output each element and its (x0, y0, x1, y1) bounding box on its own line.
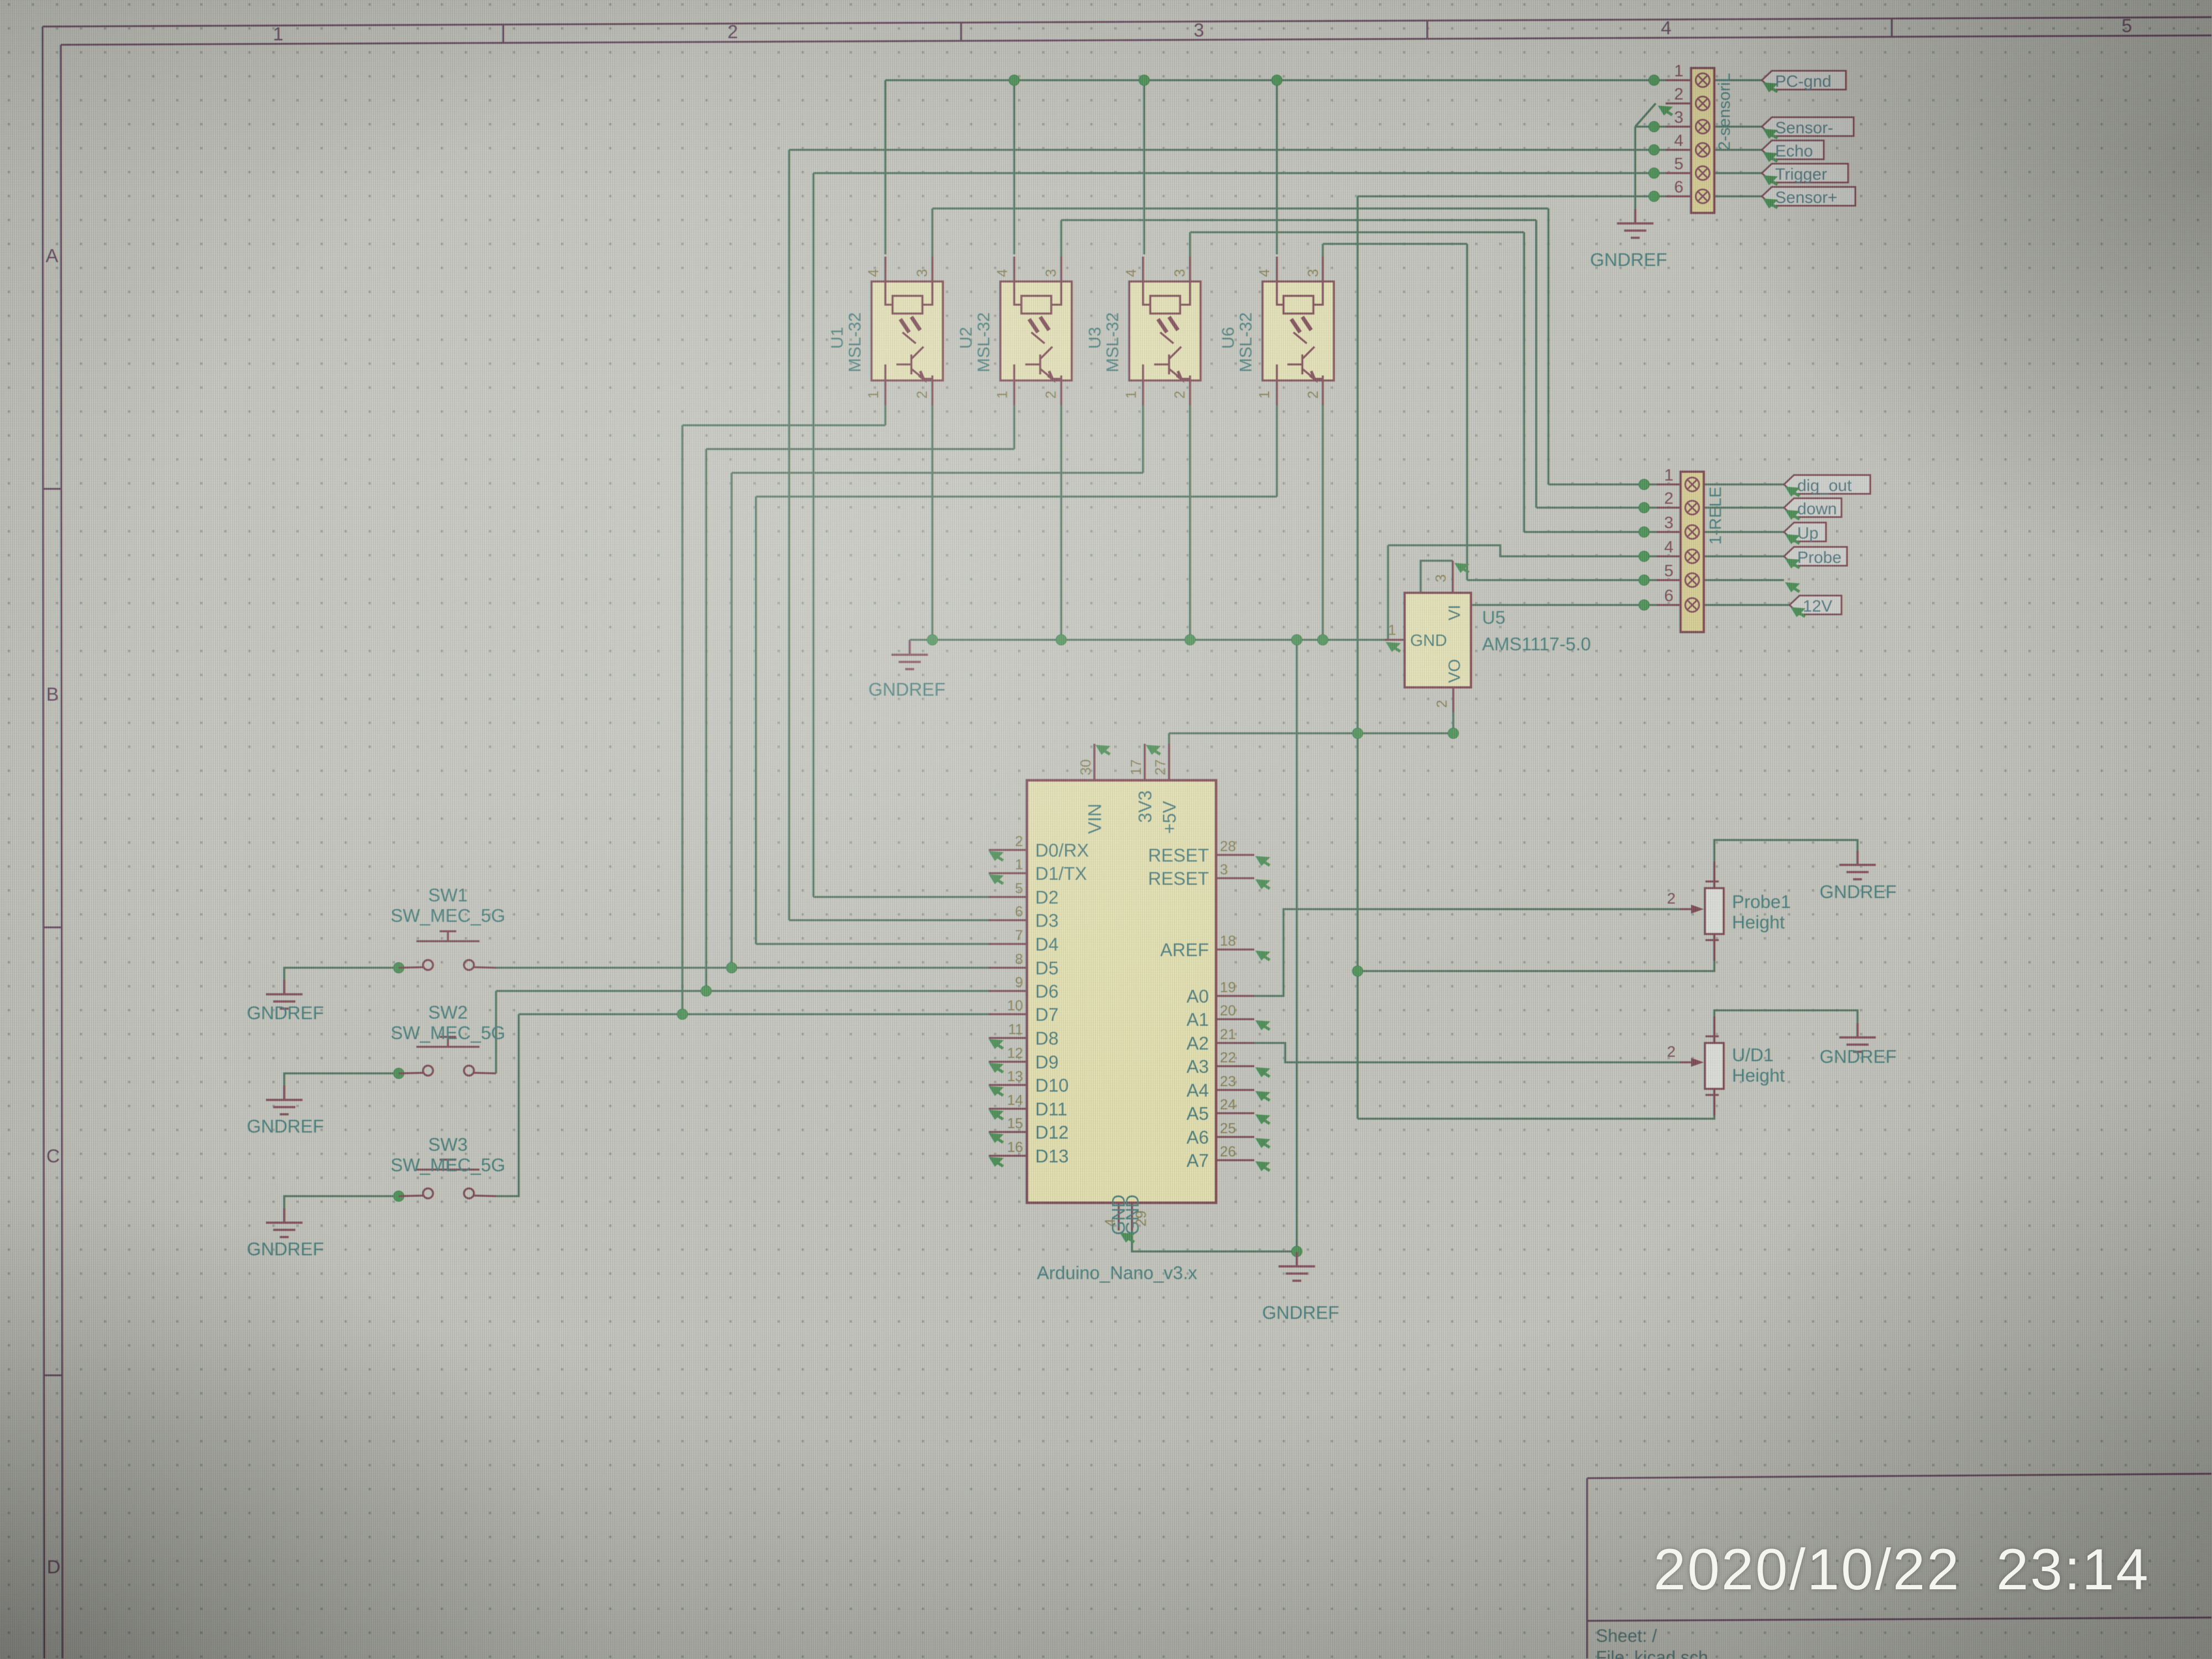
svg-text:GNDREF: GNDREF (868, 679, 945, 700)
svg-text:AREF: AREF (1160, 940, 1209, 960)
svg-text:D9: D9 (1035, 1052, 1058, 1072)
wire GND bus horizontal (910, 639, 1388, 641)
svg-text:13: 13 (1007, 1068, 1023, 1084)
ERC marker A1 (1255, 1020, 1270, 1030)
svg-text:2: 2 (1664, 489, 1673, 508)
svg-text:2: 2 (1667, 1043, 1676, 1060)
wire SW2 left to ground (284, 1073, 399, 1087)
wire U2 input horizontal (706, 448, 1014, 450)
svg-text:5: 5 (2122, 15, 2132, 36)
svg-text:Height: Height (1732, 1065, 1785, 1086)
column tick 4/5 (1891, 18, 1892, 36)
junction J2 pin1 (1649, 75, 1660, 86)
junction J2 pin3 diagonal (1649, 122, 1660, 132)
junction V2 on D6 (701, 986, 712, 997)
wire A2 to pot2 wiper (1254, 1043, 1680, 1062)
svg-text:Height: Height (1732, 912, 1785, 932)
wire U3 pin1 drop (1142, 405, 1144, 473)
wire D3 horizontal (789, 919, 990, 921)
global label Trigger (1762, 164, 1848, 184)
svg-text:6: 6 (1674, 178, 1683, 196)
svg-text:Probe: Probe (1797, 549, 1841, 567)
wire U4 pin2 vertical (1322, 405, 1324, 640)
wire GND to REL row4 horizontal (1388, 545, 1657, 556)
wire pot1 bottom to 5V (1358, 934, 1714, 971)
svg-text:D: D (47, 1557, 61, 1578)
wire SW2 output riser (495, 991, 497, 1073)
junction J2 pin4 (1649, 145, 1660, 155)
wire J2 label stub row1 (1714, 79, 1762, 81)
wire D5 horizontal from SW1 (496, 967, 990, 969)
svg-text:A: A (46, 246, 59, 267)
wire J1 label stub row3 (1704, 531, 1784, 533)
svg-text:C: C (46, 1146, 60, 1167)
column tick 1/2 (502, 24, 504, 43)
svg-text:D7: D7 (1035, 1004, 1058, 1025)
svg-text:U6: U6 (1218, 327, 1238, 349)
switch SW1 (390, 885, 505, 970)
svg-text:4: 4 (1256, 269, 1272, 277)
svg-text:3: 3 (1305, 269, 1321, 277)
junction J2 pin6 (1649, 191, 1660, 202)
junction J1 pin6 (1639, 600, 1650, 611)
ground symbol pot2 (1839, 1023, 1876, 1052)
junction U4 pin2 on GND bus (1318, 635, 1328, 645)
svg-text:18: 18 (1220, 932, 1236, 949)
title block border (1587, 1474, 2211, 1658)
ERC marker A3 (1255, 1067, 1270, 1077)
ERC marker label Sensor- (1763, 129, 1778, 139)
wire net PC-gnd row1 horizontal (885, 79, 1666, 81)
ERC marker label Probe (1785, 559, 1800, 568)
wire GND drop to bottom (1296, 640, 1298, 1251)
global label PC-gnd (1762, 71, 1846, 91)
svg-text:D1/TX: D1/TX (1035, 863, 1087, 884)
potentiometer RV2 U/D1 Height (1667, 1016, 1785, 1115)
svg-text:GNDREF: GNDREF (1590, 249, 1667, 270)
svg-text:2: 2 (1667, 890, 1676, 907)
wire ground stem under J2 (1634, 127, 1636, 222)
wire U2 pin2 vertical (1060, 405, 1062, 640)
svg-text:7: 7 (1015, 927, 1023, 943)
wire pot1 top to ground (1714, 840, 1858, 888)
wire D4 horizontal (756, 943, 990, 945)
ERC marker D0 (989, 851, 1004, 861)
svg-text:+5V: +5V (1159, 801, 1180, 834)
ERC marker A7 (1255, 1161, 1270, 1171)
wire Sensor- row3 stub (1635, 126, 1666, 128)
svg-text:SW2: SW2 (428, 1002, 468, 1022)
junction J1 pin3 (1639, 527, 1650, 538)
wire U3 out staircase vertical (1523, 232, 1525, 532)
wire U4 out staircase horizontal (1323, 243, 1467, 245)
svg-text:24: 24 (1220, 1096, 1236, 1113)
potentiometer RV1 Probe1 Height (1667, 862, 1791, 961)
junction J1 pin2 (1639, 503, 1650, 513)
wire J1 label stub row6 (1704, 604, 1790, 606)
ERC marker GND4 (1120, 1233, 1135, 1243)
svg-text:A4: A4 (1187, 1080, 1209, 1100)
svg-text:4: 4 (994, 269, 1010, 277)
svg-text:2: 2 (1015, 833, 1023, 849)
svg-text:SW_MEC_5G: SW_MEC_5G (390, 1155, 505, 1175)
wire arduino GND29 to ground (1132, 1230, 1297, 1251)
wire U3 pin3 riser (1189, 232, 1191, 257)
wire U1 out staircase vertical (1547, 208, 1550, 484)
wire net Trigger row5 horizontal (813, 172, 1666, 174)
svg-text:GNDREF: GNDREF (247, 1003, 324, 1023)
ERC marker U5 GND (1386, 642, 1401, 652)
junction U4 pin4 on row1 (1272, 75, 1282, 86)
svg-text:U3: U3 (1085, 327, 1104, 349)
junction U2 pin4 on row1 (1009, 75, 1020, 86)
wire U4 out staircase vertical (1466, 244, 1468, 580)
svg-text:D5: D5 (1035, 958, 1058, 978)
global label 12V (1790, 596, 1841, 615)
junction U3 pin2 on GND bus (1185, 635, 1196, 645)
svg-text:Sheet: /: Sheet: / (1596, 1626, 1657, 1646)
global label dig_out (1784, 475, 1870, 495)
ERC marker J1 row5 (1785, 582, 1800, 592)
svg-text:MSL-32: MSL-32 (974, 312, 993, 373)
global label Sensor+ (1762, 187, 1855, 207)
svg-text:3: 3 (1664, 514, 1673, 532)
svg-text:2: 2 (1171, 391, 1188, 399)
svg-text:28: 28 (1220, 838, 1236, 854)
wire U1 pin3 riser (931, 208, 933, 257)
junction U1 pin2 on GND bus (927, 635, 938, 645)
ERC marker J2 pin2 (1658, 106, 1673, 116)
wire J2 label stub row3 (1714, 126, 1762, 128)
svg-text:1-RELE: 1-RELE (1707, 487, 1725, 545)
svg-text:GND: GND (1410, 632, 1447, 650)
svg-text:4: 4 (1661, 18, 1672, 39)
svg-text:D2: D2 (1035, 887, 1058, 907)
junction Sensor+ on 5V rail (1353, 728, 1363, 739)
svg-text:SW1: SW1 (428, 885, 468, 905)
wire GND riser to REL row4 (1387, 545, 1389, 640)
wire 5V rail horizontal (1169, 732, 1453, 734)
optocoupler U6 (1218, 257, 1334, 405)
wire net Echo row4 horizontal (789, 149, 1666, 151)
svg-text:MSL-32: MSL-32 (845, 312, 864, 373)
wire 12V from U5 VI (1421, 561, 1657, 605)
wire U4 pin3 riser (1322, 244, 1324, 257)
wire V4 vertical to D4 row (755, 497, 757, 944)
svg-text:A0: A0 (1187, 986, 1209, 1006)
wire V2 vertical to D6 row (705, 449, 707, 991)
ERC marker label down (1785, 510, 1800, 520)
wire U2 out staircase vertical (1535, 220, 1537, 508)
svg-text:D0/RX: D0/RX (1035, 840, 1089, 860)
svg-text:21: 21 (1220, 1026, 1236, 1042)
svg-text:3: 3 (1674, 108, 1683, 127)
arduino pin names left (1035, 840, 1089, 1166)
svg-text:25: 25 (1220, 1120, 1236, 1136)
ERC marker D11 (989, 1110, 1004, 1120)
svg-text:VI: VI (1446, 605, 1464, 620)
switch SW2 (390, 1002, 505, 1076)
wire REL row3 horizontal (1524, 531, 1657, 533)
switch SW3 (390, 1134, 505, 1198)
svg-text:2: 2 (1305, 391, 1321, 399)
ERC marker D8 (989, 1039, 1004, 1049)
svg-text:12V: 12V (1803, 597, 1832, 615)
wire U1 out staircase horizontal (932, 207, 1548, 210)
svg-text:D8: D8 (1035, 1028, 1058, 1048)
svg-text:9: 9 (1015, 974, 1023, 990)
wire J1 label stub row5 (1704, 579, 1784, 581)
svg-text:RESET: RESET (1148, 845, 1209, 865)
svg-text:4: 4 (1674, 132, 1683, 150)
svg-text:MSL-32: MSL-32 (1103, 312, 1122, 373)
wire D7 horizontal (519, 1013, 990, 1015)
junction U3 pin4 on row1 (1139, 75, 1150, 86)
svg-text:11: 11 (1008, 1021, 1023, 1037)
ERC marker label 12V (1791, 607, 1806, 617)
ERC marker RESET28 (1255, 856, 1270, 866)
wire Sensor+ vertical to 5V rail (1357, 196, 1359, 1119)
svg-text:10: 10 (1007, 997, 1023, 1014)
ERC marker RESET3 (1255, 879, 1270, 889)
svg-text:4: 4 (1664, 538, 1673, 556)
wire U4 pin1 drop (1276, 405, 1278, 497)
svg-text:A5: A5 (1187, 1103, 1209, 1124)
wire V1 vertical to D7 row (681, 425, 684, 1014)
svg-text:8: 8 (1015, 951, 1023, 967)
svg-text:23: 23 (1220, 1073, 1236, 1089)
svg-text:20: 20 (1220, 1002, 1236, 1019)
ground symbol SW2 (266, 1086, 302, 1114)
wire pin2 diagonal to ground (1635, 103, 1656, 127)
junction SW2 left pin (394, 1068, 404, 1079)
svg-text:GNDREF: GNDREF (247, 1116, 324, 1136)
svg-text:2: 2 (1042, 391, 1059, 399)
svg-text:3V3: 3V3 (1135, 790, 1155, 823)
svg-text:1: 1 (1664, 466, 1673, 484)
wire U2 pin4 vertical (1013, 80, 1015, 254)
ground symbol pot1 (1839, 851, 1876, 879)
svg-text:U1: U1 (827, 327, 847, 349)
svg-text:1: 1 (865, 391, 881, 399)
svg-text:3: 3 (914, 269, 930, 277)
wire J2 label stub row4 (1714, 149, 1762, 151)
svg-text:GNDREF: GNDREF (247, 1239, 324, 1259)
connector J2 sensor (1666, 62, 1734, 213)
wire pot2 top to ground (1714, 1010, 1858, 1043)
svg-text:Arduino_Nano_v3.x: Arduino_Nano_v3.x (1037, 1262, 1197, 1283)
svg-text:5: 5 (1664, 562, 1673, 580)
svg-text:D6: D6 (1035, 981, 1058, 1001)
row tick A/B (43, 488, 61, 489)
sheet frame inner border (61, 35, 2211, 45)
regulator U5 (1385, 561, 1591, 712)
wire U1 pin2 vertical (931, 405, 933, 640)
ERC marker U5 VI (1454, 563, 1469, 573)
arduino pin names right (1148, 845, 1209, 1171)
wire pot2 bottom to 5V (1358, 1089, 1714, 1119)
ERC marker A6 (1255, 1138, 1270, 1148)
svg-text:Sensor-: Sensor- (1775, 119, 1833, 137)
svg-text:29: 29 (1133, 1211, 1149, 1227)
svg-text:16: 16 (1007, 1139, 1023, 1155)
svg-text:12: 12 (1007, 1045, 1023, 1061)
svg-text:D10: D10 (1035, 1075, 1069, 1095)
ERC marker VIN (1095, 745, 1110, 755)
junction J1 pin4 (1639, 551, 1650, 562)
svg-text:19: 19 (1220, 979, 1236, 995)
svg-text:6: 6 (1015, 903, 1023, 920)
svg-text:GNDREF: GNDREF (1819, 881, 1896, 902)
svg-text:30: 30 (1077, 759, 1094, 775)
wire J2 label stub row6 (1714, 195, 1762, 197)
wire D6 horizontal (496, 990, 990, 992)
junction V1 on D7 (677, 1009, 688, 1020)
ERC marker label Up (1785, 534, 1800, 544)
svg-text:A7: A7 (1187, 1150, 1209, 1171)
svg-text:VO: VO (1446, 659, 1464, 683)
optocoupler U2 (956, 257, 1072, 405)
global label Probe (1784, 547, 1847, 567)
svg-text:2-sensoriL: 2-sensoriL (1715, 73, 1734, 150)
wire U4 input horizontal (756, 495, 1277, 498)
svg-text:Sensor+: Sensor+ (1775, 189, 1838, 207)
wire net Sensor+ row6 horizontal (1358, 195, 1666, 197)
svg-text:1: 1 (994, 391, 1010, 399)
svg-text:1: 1 (1256, 391, 1272, 399)
wire net Trigger vertical to D2 (812, 173, 815, 897)
svg-text:File: kicad.sch: File: kicad.sch (1596, 1647, 1708, 1659)
wire U1 pin1 drop (884, 405, 886, 425)
ERC marker label PC-gnd (1763, 82, 1778, 92)
svg-text:D13: D13 (1035, 1146, 1069, 1166)
wire U3 out staircase horizontal (1190, 231, 1524, 233)
svg-text:VIN: VIN (1084, 804, 1105, 834)
svg-text:4: 4 (865, 269, 881, 277)
ground symbol GND bus left (891, 640, 928, 669)
arduino pin numbers left (1007, 833, 1023, 1155)
ERC marker A5 (1255, 1114, 1270, 1124)
wire D2 horizontal (813, 896, 990, 898)
svg-text:SW_MEC_5G: SW_MEC_5G (390, 1022, 505, 1043)
junction U5 VO on 5V rail (1448, 728, 1459, 739)
svg-text:4: 4 (1123, 269, 1139, 277)
svg-text:5: 5 (1674, 155, 1683, 173)
svg-text:D12: D12 (1035, 1122, 1069, 1142)
ERC marker D1 (989, 874, 1004, 884)
svg-text:2: 2 (1674, 85, 1683, 103)
column tick 3/4 (1426, 20, 1428, 39)
wire GND bus stem to ground (909, 640, 911, 653)
svg-text:U5: U5 (1482, 607, 1505, 628)
svg-text:1: 1 (1674, 62, 1683, 80)
svg-text:15: 15 (1007, 1115, 1023, 1131)
svg-text:3: 3 (1220, 861, 1228, 878)
svg-text:1: 1 (1388, 622, 1396, 638)
svg-text:A1: A1 (1187, 1009, 1209, 1030)
wire A0 to pot1 wiper (1254, 909, 1680, 996)
row tick B/C (44, 926, 62, 928)
wire J1 label stub row4 (1704, 555, 1784, 557)
svg-text:2: 2 (1433, 700, 1450, 708)
junction SW3 left pin (394, 1191, 404, 1202)
svg-text:3: 3 (1194, 20, 1204, 41)
optocoupler U1 (827, 257, 943, 405)
svg-text:1: 1 (1123, 391, 1139, 399)
global label down (1784, 498, 1841, 518)
svg-text:MSL-32: MSL-32 (1236, 312, 1255, 373)
wire SW3 left to ground (284, 1196, 399, 1209)
junction bottom GNDREF (1292, 1246, 1302, 1257)
wire J1 label stub row2 (1704, 507, 1784, 509)
ground symbol SW1 (266, 980, 302, 1009)
wire U3 input horizontal (732, 472, 1143, 474)
svg-text:2: 2 (914, 391, 930, 399)
wire REL row1 horizontal (1548, 483, 1657, 486)
svg-text:Up: Up (1797, 524, 1818, 542)
ERC marker D13 (989, 1157, 1004, 1167)
wire net Echo vertical to D3 (788, 150, 790, 920)
svg-text:A3: A3 (1187, 1056, 1209, 1077)
column tick 2/3 (960, 23, 962, 41)
svg-text:GNDREF: GNDREF (1819, 1046, 1896, 1067)
svg-text:4: 4 (1102, 1219, 1118, 1227)
svg-text:3: 3 (1432, 575, 1449, 582)
svg-text:A6: A6 (1187, 1127, 1209, 1147)
svg-text:3: 3 (1171, 269, 1188, 277)
svg-text:22: 22 (1220, 1049, 1236, 1066)
svg-text:D3: D3 (1035, 910, 1058, 931)
junction GND drop on bus (1292, 635, 1302, 645)
global label Up (1784, 523, 1826, 542)
ERC marker A4 (1255, 1091, 1270, 1101)
wire SW1 left to ground (284, 968, 399, 981)
junction J2 pin5 (1649, 168, 1660, 179)
junction SW1 left pin (394, 963, 404, 973)
wire 5V pin riser (1168, 733, 1170, 744)
wire U4 pin4 vertical (1276, 80, 1278, 254)
svg-text:RESET: RESET (1148, 868, 1209, 889)
ERC marker D12 (989, 1133, 1004, 1143)
ERC marker label Echo (1763, 152, 1778, 162)
junction V3 on D5 (727, 963, 737, 973)
svg-text:U/D1: U/D1 (1732, 1045, 1773, 1065)
wire U5 VO vertical (1452, 712, 1454, 733)
ERC marker D10 (989, 1086, 1004, 1096)
svg-text:dig_out: dig_out (1797, 477, 1852, 495)
ERC marker 3V3 (1146, 745, 1161, 755)
svg-text:14: 14 (1007, 1092, 1023, 1108)
wire J2 label stub row5 (1714, 172, 1762, 174)
svg-text:1: 1 (273, 24, 284, 45)
junction J1 pin5 (1639, 575, 1650, 586)
arduino U7 Arduino_Nano_v3.x (989, 744, 1254, 1230)
wire U2 pin3 riser (1060, 220, 1062, 257)
arduino pin numbers right (1220, 838, 1236, 1160)
svg-text:D11: D11 (1035, 1099, 1067, 1119)
svg-text:Trigger: Trigger (1775, 165, 1827, 184)
wire U1 input horizontal (682, 424, 885, 426)
ERC marker AREF (1255, 951, 1270, 961)
svg-text:B: B (46, 684, 59, 705)
ground symbol bottom center (1279, 1252, 1315, 1281)
svg-text:2: 2 (728, 22, 738, 43)
wire U1 pin4 vertical (884, 80, 886, 254)
row tick C/D (44, 1374, 62, 1376)
wire REL row5 horizontal (1467, 579, 1657, 581)
svg-text:PC-gnd: PC-gnd (1775, 72, 1832, 91)
svg-text:1: 1 (1015, 856, 1023, 873)
